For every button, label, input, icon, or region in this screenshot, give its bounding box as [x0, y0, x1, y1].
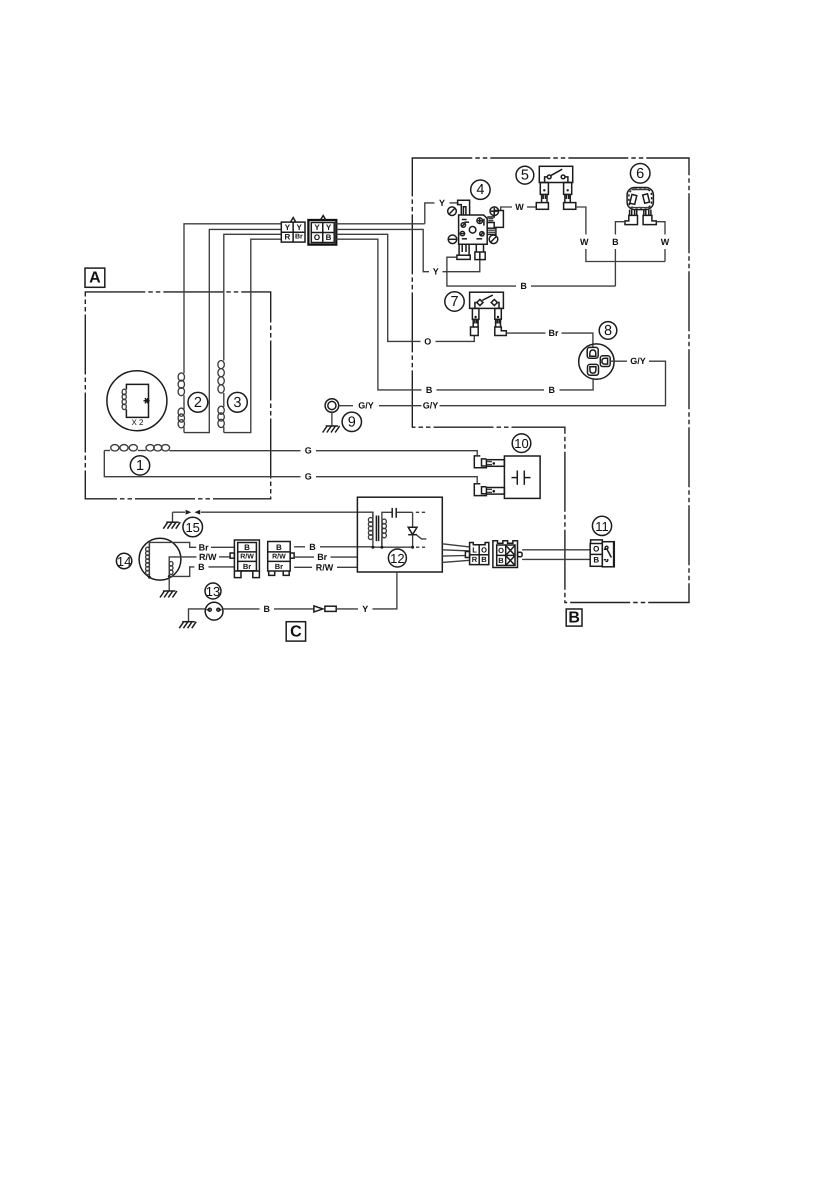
- svg-text:B: B: [593, 556, 599, 565]
- region B boundary (dash-dot outline): [412, 158, 689, 603]
- svg-text:B: B: [498, 556, 504, 565]
- wire from condenser 13 to ground: [189, 609, 206, 622]
- wire Y to main switch top terminal: [336, 203, 458, 224]
- svg-text:Y: Y: [314, 223, 320, 232]
- label R/W (magneto out): [199, 551, 217, 562]
- main switch 4 side terminal: [487, 211, 503, 235]
- label 2: [188, 392, 208, 412]
- connector B/RW/Br (right half): [268, 542, 294, 576]
- svg-text:6: 6: [636, 166, 644, 182]
- wire Y to main switch lower-right terminal: [336, 229, 480, 271]
- frame label A: [85, 268, 105, 287]
- wire W from switch 5 to bulb socket 6 right pin: [576, 207, 665, 262]
- wire Y from coil 3 bottom to connector: [224, 239, 281, 432]
- svg-text:Br: Br: [199, 542, 209, 552]
- svg-text:O: O: [593, 545, 599, 554]
- frame label B: [566, 609, 582, 627]
- label Br (to CDI): [315, 552, 329, 563]
- label Y top: [438, 198, 447, 209]
- ground symbol 13: [179, 622, 196, 629]
- svg-text:W: W: [515, 202, 524, 212]
- svg-text:O: O: [498, 546, 504, 555]
- svg-text:B: B: [198, 562, 205, 572]
- svg-text:A: A: [89, 270, 101, 287]
- main switch 4 body: [459, 215, 488, 244]
- main switch 4 bottom-left terminal: [457, 244, 470, 259]
- screw top-left of switch 4: [448, 207, 457, 216]
- svg-text:B: B: [549, 385, 556, 395]
- CDI 12 internal capacitor: [382, 508, 425, 519]
- svg-text:G/Y: G/Y: [358, 401, 374, 411]
- wire G pickup coil 1 left end to condenser 10: [104, 451, 477, 484]
- svg-text:R: R: [285, 233, 291, 242]
- ground symbol under magneto 14: [160, 576, 177, 597]
- svg-text:Y: Y: [362, 604, 368, 614]
- bulb socket 6 body: [627, 188, 653, 210]
- wire Br from magneto 14 to connector: [149, 542, 234, 548]
- label 13: [205, 583, 221, 599]
- screw bottom-left of switch 4: [448, 235, 457, 244]
- source coil 3: [218, 361, 224, 433]
- label 9: [342, 412, 361, 431]
- bulb socket 6 left pin: [625, 210, 638, 225]
- wire W from socket 6 right pin down: [656, 222, 665, 262]
- svg-text:X 2: X 2: [131, 418, 144, 427]
- label Br (magneto out): [197, 542, 211, 553]
- label 10: [512, 434, 531, 453]
- region A boundary (dash-dot box): [85, 292, 270, 499]
- label 15: [183, 517, 203, 537]
- wire Br from switch 7 to magneto base 8: [506, 333, 593, 347]
- svg-text:B: B: [244, 543, 250, 552]
- wire G pickup coil 1 right end to condenser 10: [169, 451, 477, 456]
- svg-text:11: 11: [595, 519, 609, 534]
- svg-text:R/W: R/W: [316, 562, 334, 572]
- engine stop switch 11 body: [602, 542, 614, 567]
- wire B from socket 6 left pin down to B junction: [615, 222, 625, 286]
- connector B/RW/Br (left half): [230, 540, 259, 578]
- ground symbol 9: [323, 412, 340, 432]
- wire B from condenser 13 to diode: [223, 608, 314, 610]
- CDI unit 12 box: [357, 497, 442, 572]
- svg-text:Br: Br: [317, 552, 327, 562]
- svg-text:Br: Br: [243, 562, 251, 571]
- CDI 12 primary-top wire: [372, 512, 374, 518]
- svg-text:R/W: R/W: [272, 552, 286, 560]
- label W (switch4 - switch5): [515, 201, 524, 212]
- svg-text:R/W: R/W: [199, 552, 217, 562]
- label G/Y (on ground run, inside B): [421, 400, 439, 411]
- CDI 12 internal transformer: [368, 516, 386, 548]
- svg-text:Y: Y: [433, 267, 439, 277]
- svg-text:B: B: [568, 610, 580, 627]
- condenser 10 lower terminal: [474, 484, 504, 496]
- svg-text:B: B: [326, 233, 332, 242]
- svg-text:R/W: R/W: [240, 552, 254, 560]
- svg-text:10: 10: [514, 436, 528, 451]
- svg-text:9: 9: [348, 414, 356, 430]
- svg-text:B: B: [264, 604, 271, 614]
- diode (backup): [314, 606, 336, 612]
- wire O to engine stop switch 11: [522, 549, 590, 551]
- label B (main switch to socket): [519, 281, 528, 292]
- label Y bottom: [432, 266, 441, 277]
- label G/Y (right of base 8): [629, 356, 647, 367]
- label 4: [471, 180, 490, 199]
- svg-text:G: G: [305, 472, 312, 482]
- label B (right): [548, 384, 557, 395]
- svg-text:5: 5: [521, 168, 529, 184]
- lighting switch 7 right terminal: [495, 308, 507, 335]
- svg-text:4: 4: [476, 182, 484, 198]
- svg-text:7: 7: [450, 294, 458, 310]
- wire R/W from connector into CDI 12: [294, 566, 357, 568]
- svg-text:O: O: [314, 233, 320, 242]
- label 12: [388, 549, 406, 567]
- bulb socket 6 right pin: [643, 210, 656, 225]
- label Y (diode to CDI): [361, 603, 370, 614]
- svg-text:G: G: [305, 446, 312, 456]
- wire Y from coil 2 top to connector (vertical+horizontal): [184, 224, 281, 373]
- wire Y from diode to CDI bottom: [336, 608, 358, 610]
- main switch 4 bottom-right terminal: [475, 244, 485, 259]
- label O: [424, 336, 433, 347]
- svg-text:C: C: [290, 623, 302, 640]
- label 8: [599, 322, 617, 340]
- label W (under socket 6): [661, 236, 670, 247]
- svg-text:Y: Y: [439, 198, 445, 208]
- svg-text:R: R: [472, 555, 478, 564]
- CDI 12 internal ground rail: [371, 538, 425, 549]
- svg-text:G/Y: G/Y: [423, 401, 439, 411]
- wire from ground 15 to CDI unit 12 (with connector arrows): [173, 510, 373, 518]
- switch 5 left terminal: [536, 183, 548, 210]
- wire B from connector to magneto base 8: [336, 239, 593, 390]
- connector Y/Y O/B (4-pin, mating half): [308, 216, 336, 245]
- label 14: [116, 553, 131, 569]
- condenser 10 upper terminal: [474, 456, 504, 468]
- label B (under socket 6): [611, 236, 620, 247]
- wire B to engine stop switch 11: [522, 558, 590, 560]
- label W (below switch 5): [580, 236, 589, 247]
- svg-text:O: O: [424, 336, 431, 346]
- svg-text:O: O: [481, 546, 487, 555]
- svg-text:B: B: [520, 281, 527, 291]
- screw top-right of switch 4: [490, 207, 499, 216]
- lighting switch 7 left terminal: [471, 308, 479, 335]
- label B (condenser to diode): [263, 603, 272, 614]
- pickup coil 1: [104, 445, 169, 451]
- wires CDI 12 to connector L/O R/B: [442, 544, 469, 563]
- frame label C: [286, 622, 305, 641]
- label G (upper): [304, 445, 313, 456]
- condenser 13: [205, 602, 223, 620]
- ground terminal 9 ring: [325, 399, 353, 413]
- connector Y/Y R/Br (4-pin): [281, 218, 305, 243]
- svg-text:12: 12: [390, 551, 404, 566]
- wire O from connector to lighting switch 7: [336, 234, 474, 341]
- wire Y from CDI 12 bottom to backup circuit: [373, 572, 397, 609]
- svg-text:Y: Y: [326, 223, 332, 232]
- label R/W (to CDI): [315, 562, 333, 573]
- label G/Y (near ground terminal 9): [357, 400, 375, 411]
- svg-text:13: 13: [206, 584, 220, 599]
- svg-text:B: B: [481, 555, 487, 564]
- svg-text:L: L: [472, 546, 477, 555]
- svg-text:2: 2: [194, 395, 202, 411]
- svg-text:B: B: [276, 543, 282, 552]
- screw bottom-right of switch 4: [489, 235, 498, 244]
- label 11: [592, 516, 611, 535]
- label B (to CDI): [308, 541, 317, 552]
- label 7: [445, 292, 464, 311]
- wire Y from coil 3 top to connector: [224, 234, 281, 360]
- wire R/W from magneto 14 to connector: [169, 557, 230, 561]
- label 6: [630, 164, 650, 184]
- switch 5 right terminal: [564, 183, 576, 210]
- lighting switch 7 body: [470, 292, 504, 308]
- wire B from connector into CDI 12: [294, 546, 373, 548]
- label B (magneto out): [197, 561, 206, 572]
- svg-text:W: W: [580, 237, 589, 247]
- label 5: [516, 166, 534, 184]
- svg-text:Y: Y: [297, 223, 303, 232]
- svg-text:Br: Br: [275, 562, 283, 571]
- svg-text:Br: Br: [295, 234, 303, 241]
- svg-text:Y: Y: [285, 223, 291, 232]
- flywheel magneto 14: [139, 538, 181, 580]
- condenser 10 box: [504, 456, 540, 498]
- label G (lower): [304, 471, 313, 482]
- wire G/Y from base 8 to ground wire: [379, 361, 666, 406]
- svg-text:8: 8: [604, 323, 612, 339]
- charge coil 2: [178, 373, 184, 433]
- wire B from magneto 14 to connector: [169, 567, 234, 577]
- label B (left): [425, 384, 434, 395]
- svg-text:14: 14: [117, 554, 131, 569]
- svg-text:B: B: [309, 542, 316, 552]
- svg-text:1: 1: [136, 458, 144, 474]
- svg-text:G/Y: G/Y: [630, 356, 646, 366]
- connector L/O R/B (4-pin): [465, 543, 488, 565]
- magneto base 8 body: [579, 344, 614, 379]
- ignition coil x2 symbol: [107, 371, 167, 431]
- connector O/x B/x (4-pin, mating half): [493, 541, 522, 568]
- svg-text:W: W: [661, 237, 670, 247]
- svg-text:B: B: [426, 385, 433, 395]
- main switch 4 top terminal: [458, 200, 470, 215]
- svg-text:B: B: [612, 237, 619, 247]
- CDI 12 thyristor: [408, 512, 426, 547]
- label 3: [228, 392, 248, 412]
- switch 5 body: [539, 166, 572, 182]
- wire B from switch 4 bottom-left to bulb socket 6: [447, 257, 616, 286]
- label Br (switch7 - base8): [546, 328, 560, 339]
- wire W from switch 4 side terminal to switch 5: [501, 207, 537, 210]
- label 1: [130, 456, 149, 475]
- svg-text:15: 15: [185, 520, 199, 535]
- svg-text:3: 3: [233, 395, 241, 411]
- svg-text:Br: Br: [548, 328, 558, 338]
- engine stop switch 11 connector: [590, 540, 602, 566]
- ground symbol 15: [163, 512, 180, 529]
- wire Y from coil 2 bottom to connector: [184, 229, 281, 432]
- wire Br from connector into CDI 12: [294, 556, 357, 558]
